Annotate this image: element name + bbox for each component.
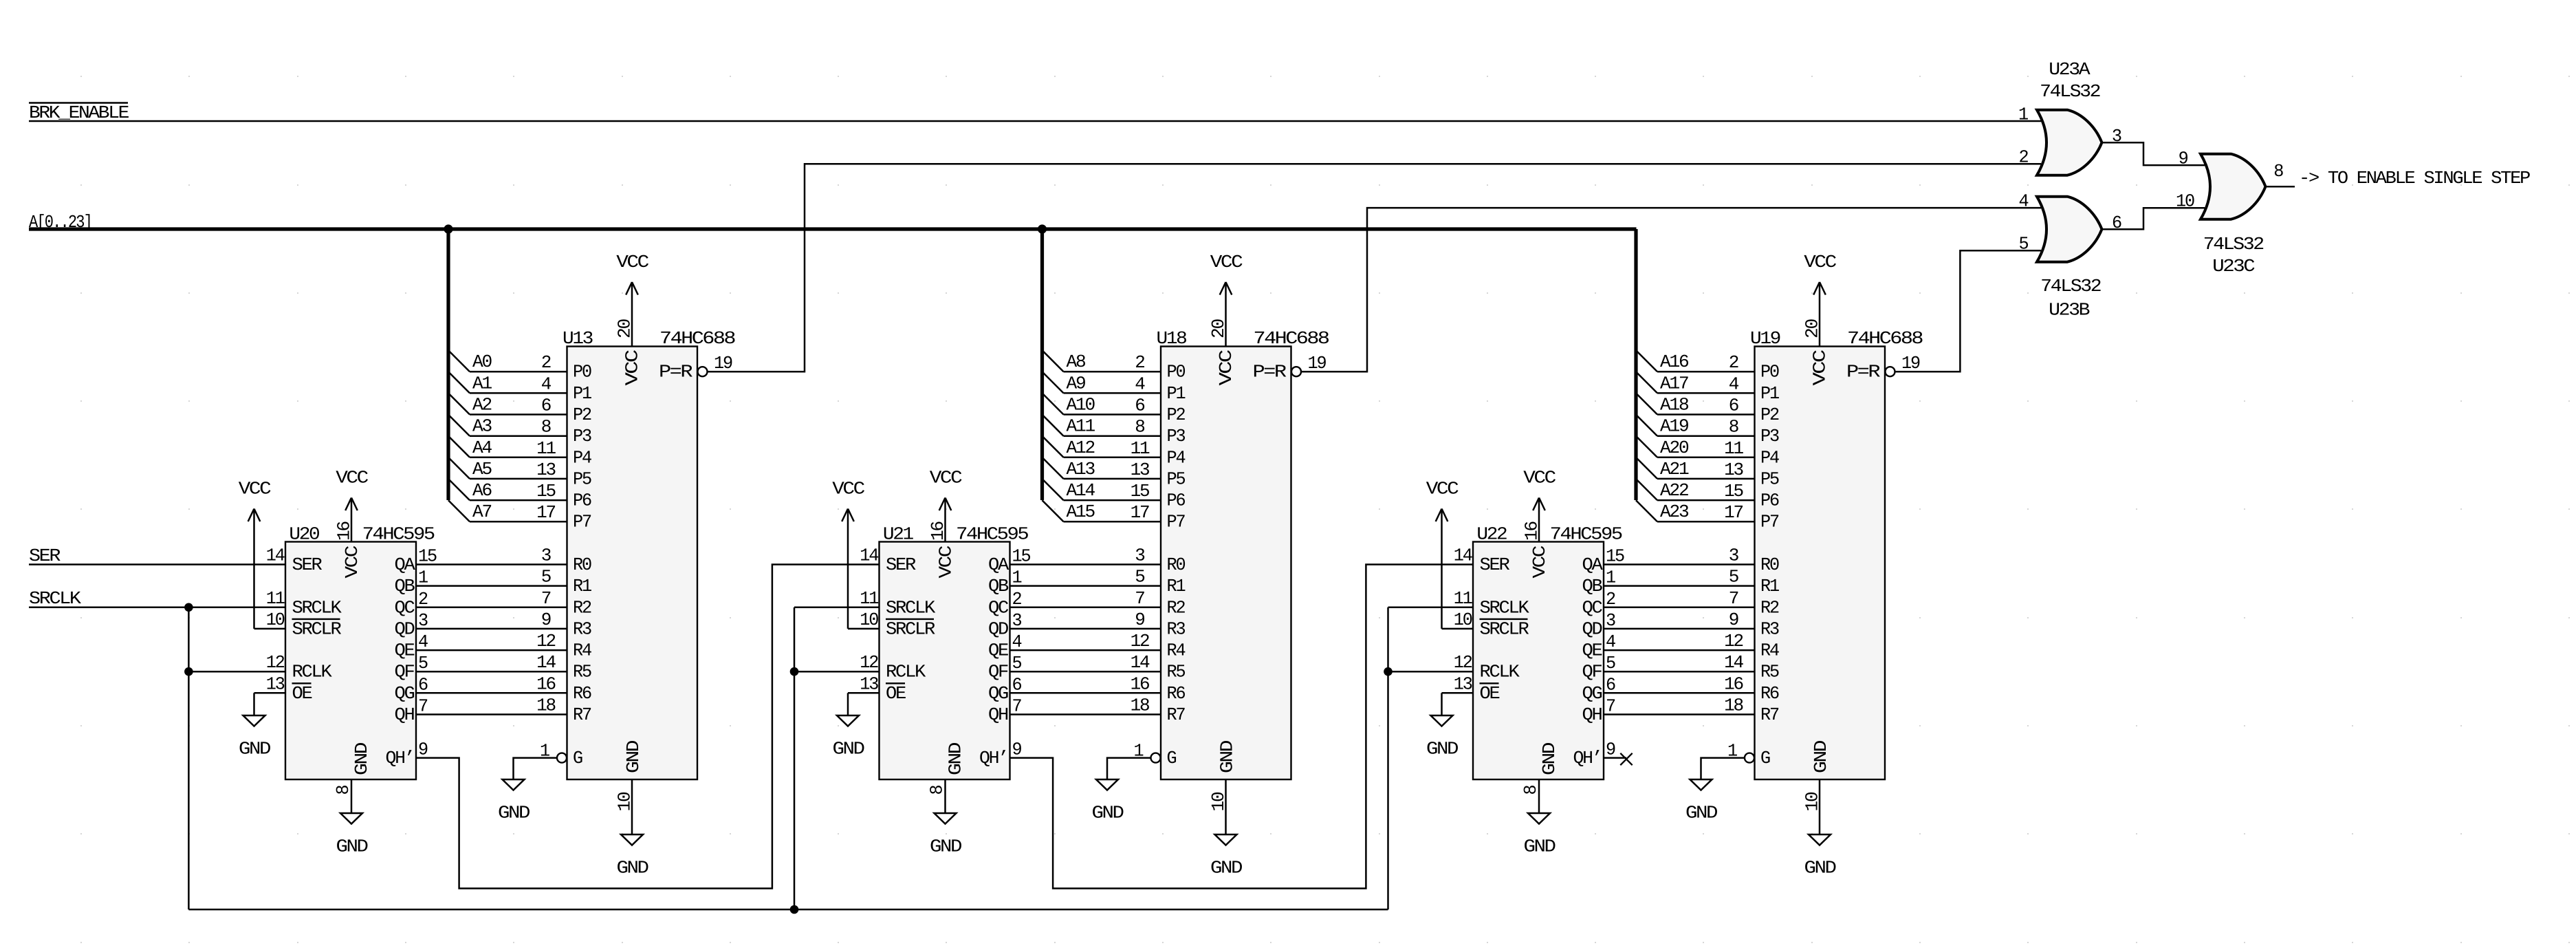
- svg-text:5: 5: [2019, 234, 2029, 255]
- svg-text:16: 16: [536, 674, 555, 694]
- svg-text:13: 13: [1724, 460, 1743, 480]
- svg-text:A12: A12: [1067, 438, 1095, 458]
- svg-text:QC: QC: [988, 597, 1009, 618]
- svg-text:R5: R5: [573, 662, 591, 682]
- svg-text:5: 5: [541, 567, 551, 588]
- svg-text:4: 4: [418, 632, 428, 652]
- svg-text:SER: SER: [292, 554, 323, 575]
- svg-text:A6: A6: [472, 480, 492, 501]
- svg-text:17: 17: [1131, 502, 1149, 523]
- svg-text:P=R: P=R: [1846, 362, 1880, 383]
- svg-text:QB: QB: [395, 576, 415, 596]
- svg-text:A4: A4: [472, 438, 492, 458]
- svg-text:QC: QC: [1582, 597, 1603, 618]
- svg-text:SER: SER: [886, 554, 916, 575]
- svg-text:4: 4: [1729, 374, 1739, 394]
- svg-text:1: 1: [1606, 568, 1616, 588]
- svg-text:20: 20: [1802, 319, 1823, 338]
- svg-text:11: 11: [1131, 438, 1150, 459]
- svg-text:U23B: U23B: [2049, 299, 2090, 320]
- svg-text:14: 14: [1454, 546, 1473, 566]
- svg-text:SRCLK: SRCLK: [886, 597, 936, 618]
- svg-text:12: 12: [1454, 652, 1472, 673]
- svg-text:A3: A3: [472, 416, 492, 437]
- svg-text:A13: A13: [1067, 459, 1095, 480]
- svg-text:SRCLR: SRCLR: [292, 618, 342, 639]
- svg-text:A5: A5: [472, 459, 492, 480]
- svg-text:8: 8: [1520, 786, 1541, 795]
- svg-text:8: 8: [1729, 417, 1738, 438]
- svg-text:U22: U22: [1476, 524, 1507, 545]
- svg-text:GND: GND: [930, 837, 962, 857]
- svg-text:VCC: VCC: [1210, 252, 1243, 272]
- svg-text:QH’: QH’: [979, 748, 1007, 768]
- svg-text:2: 2: [1135, 352, 1144, 373]
- svg-text:VCC: VCC: [342, 546, 362, 578]
- svg-text:10: 10: [1208, 793, 1229, 812]
- svg-text:14: 14: [860, 546, 879, 566]
- svg-text:P5: P5: [1167, 468, 1186, 489]
- svg-text:9: 9: [1729, 610, 1738, 630]
- svg-text:GND: GND: [351, 742, 372, 775]
- svg-text:SER: SER: [1480, 554, 1510, 575]
- svg-text:P2: P2: [1167, 405, 1186, 425]
- svg-text:SRCLK: SRCLK: [1480, 597, 1530, 618]
- svg-text:6: 6: [1729, 396, 1738, 416]
- svg-text:P7: P7: [1760, 512, 1779, 532]
- svg-text:R1: R1: [1760, 576, 1780, 596]
- svg-text:P0: P0: [573, 362, 591, 383]
- svg-text:QA: QA: [988, 554, 1009, 575]
- svg-text:A1: A1: [472, 373, 492, 394]
- svg-text:11: 11: [536, 438, 556, 459]
- svg-text:QA: QA: [395, 554, 416, 575]
- svg-text:VCC: VCC: [616, 252, 648, 272]
- svg-text:R7: R7: [573, 704, 591, 725]
- svg-text:7: 7: [1135, 588, 1144, 609]
- svg-text:GND: GND: [1539, 742, 1560, 775]
- svg-text:RCLK: RCLK: [292, 662, 333, 682]
- svg-text:18: 18: [1724, 696, 1743, 716]
- svg-text:R5: R5: [1760, 662, 1779, 682]
- svg-text:P=R: P=R: [1253, 362, 1287, 383]
- svg-text:15: 15: [1606, 546, 1624, 567]
- svg-text:A22: A22: [1660, 480, 1688, 501]
- svg-text:P6: P6: [1760, 491, 1779, 511]
- svg-text:16: 16: [928, 521, 948, 541]
- svg-text:1: 1: [418, 568, 428, 588]
- svg-text:QD: QD: [1582, 618, 1603, 639]
- svg-text:QF: QF: [395, 662, 415, 682]
- svg-text:BRK_ENABLE: BRK_ENABLE: [29, 103, 129, 123]
- svg-text:QH: QH: [988, 704, 1008, 725]
- svg-text:GND: GND: [239, 739, 271, 760]
- svg-text:GND: GND: [617, 858, 649, 879]
- svg-text:A7: A7: [472, 502, 492, 522]
- svg-text:QB: QB: [988, 576, 1009, 596]
- svg-text:R3: R3: [1167, 618, 1186, 639]
- svg-text:12: 12: [1724, 631, 1743, 651]
- svg-text:5: 5: [418, 653, 428, 674]
- svg-text:A15: A15: [1067, 502, 1095, 522]
- svg-text:GND: GND: [336, 837, 369, 857]
- svg-text:R6: R6: [573, 683, 591, 704]
- svg-text:SRCLK: SRCLK: [292, 597, 342, 618]
- svg-text:2: 2: [2019, 147, 2029, 168]
- svg-text:13: 13: [536, 460, 555, 480]
- svg-text:74LS32: 74LS32: [2203, 234, 2264, 255]
- svg-text:19: 19: [1308, 353, 1327, 374]
- svg-text:10: 10: [2176, 191, 2194, 212]
- svg-text:P2: P2: [1760, 405, 1779, 425]
- svg-text:A8: A8: [1067, 352, 1086, 372]
- svg-text:P1: P1: [1760, 383, 1780, 404]
- svg-text:R7: R7: [1760, 704, 1779, 725]
- svg-text:16: 16: [1724, 674, 1743, 694]
- svg-text:VCC: VCC: [336, 468, 368, 488]
- svg-text:11: 11: [1724, 438, 1743, 459]
- svg-text:GND: GND: [1210, 858, 1243, 879]
- svg-text:3: 3: [2112, 126, 2121, 147]
- svg-text:10: 10: [615, 793, 635, 812]
- svg-text:20: 20: [1208, 319, 1229, 338]
- svg-text:A11: A11: [1067, 416, 1095, 437]
- svg-text:4: 4: [1012, 632, 1023, 652]
- svg-text:OE: OE: [1480, 683, 1500, 704]
- svg-text:6: 6: [1135, 396, 1144, 416]
- svg-text:R2: R2: [1760, 597, 1779, 618]
- svg-text:13: 13: [860, 674, 878, 694]
- svg-text:U23A: U23A: [2049, 59, 2091, 80]
- svg-text:9: 9: [2179, 149, 2188, 169]
- svg-text:2: 2: [1012, 589, 1022, 610]
- svg-text:GND: GND: [1811, 740, 1831, 773]
- svg-text:74HC595: 74HC595: [362, 524, 435, 545]
- svg-text:VCC: VCC: [1216, 350, 1236, 386]
- svg-text:U19: U19: [1750, 328, 1780, 349]
- svg-text:4: 4: [1135, 374, 1145, 394]
- svg-text:3: 3: [541, 546, 551, 566]
- svg-text:P6: P6: [1167, 491, 1186, 511]
- svg-text:3: 3: [1729, 546, 1738, 566]
- svg-text:QE: QE: [1582, 640, 1603, 661]
- svg-text:16: 16: [1131, 674, 1149, 694]
- svg-text:9: 9: [418, 740, 428, 760]
- svg-text:VCC: VCC: [239, 479, 271, 499]
- svg-text:A23: A23: [1660, 502, 1688, 522]
- svg-text:15: 15: [418, 546, 437, 567]
- svg-text:SRCLK: SRCLK: [29, 588, 81, 609]
- svg-text:GND: GND: [1685, 803, 1718, 823]
- svg-text:U13: U13: [563, 328, 593, 349]
- svg-text:7: 7: [1606, 696, 1615, 717]
- svg-text:12: 12: [266, 652, 285, 673]
- svg-text:4: 4: [2019, 191, 2029, 212]
- svg-text:6: 6: [1606, 674, 1615, 695]
- svg-text:A21: A21: [1660, 459, 1689, 480]
- svg-text:4: 4: [1606, 632, 1616, 652]
- svg-text:QH’: QH’: [1573, 748, 1602, 768]
- svg-text:QB: QB: [1582, 576, 1603, 596]
- svg-text:GND: GND: [1217, 740, 1238, 773]
- svg-text:VCC: VCC: [936, 546, 957, 578]
- svg-text:74LS32: 74LS32: [2040, 81, 2100, 102]
- svg-text:20: 20: [615, 319, 635, 338]
- svg-text:QE: QE: [988, 640, 1009, 661]
- svg-text:P2: P2: [573, 405, 591, 425]
- svg-text:7: 7: [1729, 588, 1738, 609]
- svg-text:VCC: VCC: [1529, 546, 1550, 578]
- svg-text:13: 13: [1131, 460, 1149, 480]
- svg-text:A14: A14: [1067, 480, 1095, 501]
- svg-text:2: 2: [418, 589, 428, 610]
- svg-text:P5: P5: [573, 468, 591, 489]
- svg-text:GND: GND: [1524, 837, 1556, 857]
- svg-text:QH: QH: [1582, 704, 1602, 725]
- svg-text:7: 7: [541, 588, 551, 609]
- svg-text:GND: GND: [1092, 803, 1124, 823]
- svg-text:11: 11: [1454, 588, 1473, 609]
- svg-text:3: 3: [418, 610, 428, 631]
- svg-text:2: 2: [541, 352, 551, 373]
- svg-text:11: 11: [266, 588, 285, 609]
- svg-text:QG: QG: [395, 683, 415, 704]
- svg-text:74LS32: 74LS32: [2040, 276, 2101, 297]
- svg-text:13: 13: [266, 674, 285, 694]
- svg-text:SER: SER: [29, 546, 61, 566]
- svg-text:5: 5: [1606, 653, 1615, 674]
- svg-text:14: 14: [266, 546, 285, 566]
- svg-text:P7: P7: [573, 512, 591, 532]
- svg-text:14: 14: [536, 652, 556, 673]
- svg-text:74HC688: 74HC688: [1847, 328, 1923, 349]
- svg-text:9: 9: [1606, 740, 1615, 760]
- svg-text:GND: GND: [1804, 858, 1837, 879]
- svg-text:R0: R0: [1760, 554, 1779, 575]
- svg-text:15: 15: [1012, 546, 1031, 567]
- svg-text:10: 10: [860, 610, 878, 630]
- svg-text:18: 18: [1131, 696, 1149, 716]
- svg-text:R7: R7: [1167, 704, 1186, 725]
- svg-text:R0: R0: [573, 554, 591, 575]
- svg-text:R1: R1: [573, 576, 592, 596]
- svg-text:R6: R6: [1167, 683, 1186, 704]
- svg-text:8: 8: [1135, 417, 1144, 438]
- svg-text:QA: QA: [1582, 554, 1604, 575]
- svg-text:A20: A20: [1660, 438, 1688, 458]
- svg-text:QF: QF: [988, 662, 1008, 682]
- svg-text:R3: R3: [1760, 618, 1779, 639]
- svg-text:VCC: VCC: [930, 468, 962, 488]
- svg-text:5: 5: [1135, 567, 1144, 588]
- svg-text:R5: R5: [1167, 662, 1186, 682]
- svg-text:A[0..23]: A[0..23]: [29, 212, 91, 233]
- svg-text:VCC: VCC: [1426, 479, 1459, 499]
- svg-text:R6: R6: [1760, 683, 1779, 704]
- svg-text:A9: A9: [1067, 373, 1086, 394]
- svg-text:12: 12: [536, 631, 555, 651]
- svg-text:GND: GND: [1426, 739, 1459, 760]
- svg-text:A17: A17: [1660, 373, 1688, 394]
- svg-text:G: G: [1167, 748, 1177, 768]
- svg-text:8: 8: [2273, 161, 2283, 182]
- svg-text:P1: P1: [1167, 383, 1186, 404]
- svg-text:U18: U18: [1157, 328, 1187, 349]
- svg-text:5: 5: [1729, 567, 1738, 588]
- svg-text:R2: R2: [1167, 597, 1186, 618]
- svg-text:GND: GND: [623, 740, 644, 773]
- svg-text:17: 17: [1724, 502, 1743, 523]
- svg-text:12: 12: [860, 652, 878, 673]
- svg-text:P7: P7: [1167, 512, 1186, 532]
- svg-text:74HC688: 74HC688: [659, 328, 735, 349]
- svg-text:P5: P5: [1760, 468, 1779, 489]
- svg-text:16: 16: [334, 521, 355, 541]
- svg-text:3: 3: [1012, 610, 1022, 631]
- svg-text:P3: P3: [1167, 426, 1186, 446]
- svg-text:A10: A10: [1067, 395, 1095, 416]
- svg-text:R4: R4: [573, 640, 592, 661]
- svg-text:6: 6: [1012, 674, 1022, 695]
- svg-text:U23C: U23C: [2212, 256, 2255, 277]
- svg-text:7: 7: [418, 696, 428, 717]
- svg-text:VCC: VCC: [832, 479, 864, 499]
- svg-text:P3: P3: [573, 426, 591, 446]
- svg-text:U20: U20: [289, 524, 319, 545]
- svg-text:9: 9: [541, 610, 551, 630]
- svg-text:OE: OE: [292, 683, 313, 704]
- svg-text:R4: R4: [1167, 640, 1186, 661]
- svg-text:12: 12: [1131, 631, 1149, 651]
- svg-text:1: 1: [1012, 568, 1023, 588]
- svg-text:15: 15: [536, 481, 555, 502]
- svg-text:QG: QG: [988, 683, 1008, 704]
- svg-text:SRCLR: SRCLR: [886, 618, 935, 639]
- svg-text:13: 13: [1454, 674, 1472, 694]
- svg-text:A18: A18: [1660, 395, 1688, 416]
- svg-text:A16: A16: [1660, 352, 1688, 372]
- svg-text:P0: P0: [1167, 362, 1186, 383]
- svg-text:2: 2: [1729, 352, 1738, 373]
- svg-text:19: 19: [1901, 353, 1920, 374]
- svg-text:P4: P4: [1760, 447, 1780, 468]
- svg-text:18: 18: [536, 696, 555, 716]
- svg-text:11: 11: [860, 588, 879, 609]
- svg-text:GND: GND: [833, 739, 865, 760]
- svg-text:74HC595: 74HC595: [956, 524, 1028, 545]
- svg-text:3: 3: [1606, 610, 1615, 631]
- svg-text:15: 15: [1724, 481, 1743, 502]
- svg-text:SRCLR: SRCLR: [1480, 618, 1529, 639]
- svg-text:G: G: [1760, 748, 1770, 768]
- svg-text:14: 14: [1724, 652, 1743, 673]
- svg-text:17: 17: [536, 502, 555, 523]
- svg-text:5: 5: [1012, 653, 1022, 674]
- svg-text:7: 7: [1012, 696, 1022, 717]
- svg-text:8: 8: [927, 786, 948, 795]
- svg-text:3: 3: [1135, 546, 1144, 566]
- svg-text:19: 19: [714, 353, 732, 374]
- svg-text:U21: U21: [883, 524, 914, 545]
- svg-text:P1: P1: [573, 383, 592, 404]
- svg-text:-> TO ENABLE SINGLE STEP: -> TO ENABLE SINGLE STEP: [2299, 168, 2531, 188]
- svg-text:QE: QE: [395, 640, 415, 661]
- svg-text:A19: A19: [1660, 416, 1688, 437]
- svg-text:A2: A2: [472, 395, 492, 416]
- svg-text:QD: QD: [395, 618, 415, 639]
- svg-text:VCC: VCC: [1523, 468, 1556, 488]
- svg-text:QC: QC: [395, 597, 415, 618]
- svg-text:GND: GND: [498, 803, 530, 823]
- svg-text:A0: A0: [472, 352, 492, 372]
- svg-text:6: 6: [541, 396, 551, 416]
- svg-text:P=R: P=R: [659, 362, 692, 383]
- svg-text:GND: GND: [946, 742, 966, 775]
- svg-text:8: 8: [333, 786, 353, 795]
- svg-text:14: 14: [1131, 652, 1150, 673]
- svg-text:VCC: VCC: [1809, 350, 1830, 386]
- svg-text:R4: R4: [1760, 640, 1780, 661]
- svg-text:P4: P4: [1167, 447, 1186, 468]
- svg-text:8: 8: [541, 417, 551, 438]
- svg-text:2: 2: [1606, 589, 1615, 610]
- svg-text:9: 9: [1135, 610, 1144, 630]
- svg-text:QD: QD: [988, 618, 1009, 639]
- svg-text:RCLK: RCLK: [886, 662, 926, 682]
- svg-text:R1: R1: [1167, 576, 1186, 596]
- svg-text:P4: P4: [573, 447, 592, 468]
- svg-text:R3: R3: [573, 618, 591, 639]
- svg-text:QG: QG: [1582, 683, 1602, 704]
- svg-text:4: 4: [541, 374, 552, 394]
- svg-text:10: 10: [266, 610, 285, 630]
- svg-text:QF: QF: [1582, 662, 1602, 682]
- svg-text:VCC: VCC: [622, 350, 642, 386]
- svg-text:VCC: VCC: [1804, 252, 1836, 272]
- svg-text:6: 6: [418, 674, 428, 695]
- svg-text:16: 16: [1522, 521, 1542, 541]
- svg-text:RCLK: RCLK: [1480, 662, 1520, 682]
- svg-text:P6: P6: [573, 491, 591, 511]
- svg-text:QH’: QH’: [386, 748, 414, 768]
- svg-text:10: 10: [1802, 793, 1823, 812]
- svg-text:OE: OE: [886, 683, 906, 704]
- svg-text:6: 6: [2112, 213, 2121, 233]
- svg-text:1: 1: [2018, 105, 2029, 125]
- svg-text:9: 9: [1012, 740, 1022, 760]
- svg-text:74HC688: 74HC688: [1254, 328, 1329, 349]
- svg-text:G: G: [573, 748, 582, 768]
- svg-text:QH: QH: [395, 704, 415, 725]
- svg-text:R0: R0: [1167, 554, 1186, 575]
- svg-text:10: 10: [1454, 610, 1472, 630]
- svg-text:74HC595: 74HC595: [1550, 524, 1622, 545]
- svg-text:15: 15: [1131, 481, 1149, 502]
- svg-text:P3: P3: [1760, 426, 1779, 446]
- svg-text:R2: R2: [573, 597, 591, 618]
- svg-text:P0: P0: [1760, 362, 1779, 383]
